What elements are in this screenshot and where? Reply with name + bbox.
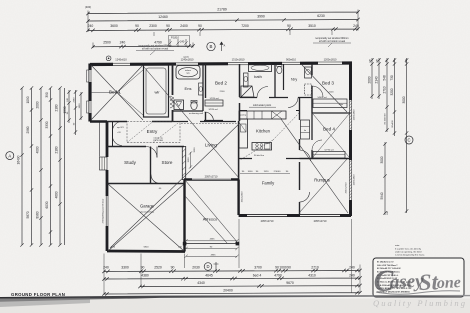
svg-text:2030: 2030 [192,266,200,270]
svg-text:3000: 3000 [380,156,384,163]
interior wall: bed2 bottom [204,120,223,122]
bed1 raked ceiling diagonals [91,65,143,120]
interior wall: bath & ldry bottom (hall) [240,97,313,99]
svg-text:5870: 5870 [26,211,30,218]
bottom dimension chain row 3 [138,284,361,288]
study window on left wall [100,157,108,170]
svg-text:1000: 1000 [248,171,254,173]
bed2 robe [205,100,223,106]
svg-text:2057x2710: 2057x2710 [346,182,348,194]
svg-text:P.1810: P.1810 [171,36,179,40]
svg-text:3510: 3510 [308,24,316,28]
svg-text:2057x2710: 2057x2710 [205,174,218,178]
porch edge [99,122,101,157]
laundry washer space [305,84,312,95]
svg-text:Ens: Ens [185,86,192,91]
interior wall: ens/bed2 divider [205,64,207,121]
svg-text:1/976 wd: 1/976 wd [210,98,220,100]
small dim cluster 90/P1810/240 [168,39,187,47]
svg-text:90x900: 90x900 [392,120,394,128]
title block box [373,258,464,297]
interior wall: bath right [274,64,276,97]
kitchen dashed bulkhead [240,112,300,160]
grid bubble C [405,136,413,144]
bottom dimension chain row 4 [102,291,361,296]
svg-text:16490: 16490 [17,155,21,164]
svg-text:Garage: Garage [140,204,155,209]
svg-text:90: 90 [198,24,202,28]
witness lines below top chain [154,31,332,36]
svg-text:240: 240 [349,273,355,277]
svg-text:2710: 2710 [383,86,387,93]
svg-text:4380: 4380 [141,273,149,277]
ens wc [191,101,197,109]
interior wall: kitchen top hall [240,110,300,112]
interior wall: study/store divider [150,147,152,184]
svg-text:548: 548 [383,75,387,81]
svg-text:2700x(900) panel lift door: 2700x(900) panel lift door [102,198,105,223]
svg-text:plaster/ceiling: plaster/ceiling [140,211,154,214]
exterior wall: garage right [183,180,185,252]
svg-text:3700: 3700 [254,266,262,270]
svg-text:20400: 20400 [223,288,233,292]
garage panel lift door opening [106,196,108,226]
bed3 diagonal [302,65,347,112]
study door arc [146,147,157,158]
svg-text:Bed 1: Bed 1 [109,90,121,95]
svg-text:90: 90 [166,24,170,28]
interior wall: hall right / rumpus left [299,98,301,216]
svg-text:8960: 8960 [36,211,40,218]
svg-text:1200x1810: 1200x1810 [354,174,356,186]
svg-text:(grid): (grid) [183,55,188,58]
right dimension chains upper [370,58,408,213]
svg-text:90: 90 [287,266,291,270]
grid bubble B with section arrow [207,42,215,50]
svg-text:2980: 2980 [74,97,76,103]
svg-text:240: 240 [120,41,126,45]
rumpus door arc [300,150,311,161]
left dimension chains [20,86,64,246]
bottom-left corner smudge [0,298,90,308]
alfresco top wall with slider [184,178,239,181]
living dashed ceiling line [181,123,238,125]
svg-text:2520: 2520 [154,266,162,270]
svg-text:a/f with no bottom reveal: a/f with no bottom reveal [142,48,169,51]
interior wall: ens right [202,64,204,111]
long roof diagonal store to garage [110,123,240,248]
bed3 robe [313,99,347,108]
svg-text:Family: Family [262,181,275,186]
svg-text:90 1000 90: 90 1000 90 [385,113,387,125]
svg-text:one: one [437,274,462,292]
svg-text:l'dry: l'dry [291,78,298,82]
bed1 hip mid lines [117,70,143,115]
wir shelves [146,68,166,114]
rumpus reverse diagonal [299,159,347,213]
svg-text:240: 240 [88,24,94,28]
svg-text:21789: 21789 [217,8,227,12]
top wall window openings [113,63,130,66]
svg-text:under an opening, the lintel: under an opening, the lintel [395,250,422,253]
svg-text:1800: 1800 [79,103,81,109]
interior wall: bed4 bottom / rumpus top [300,158,351,160]
svg-text:A: A [8,153,11,158]
svg-text:240: 240 [180,40,185,44]
interior wall: hall below bed2/ens [172,121,236,123]
svg-text:4365: 4365 [210,239,216,241]
svg-text:C: C [407,138,410,143]
svg-text:a/f with no bottom reveal: a/f with no bottom reveal [319,40,346,43]
svg-text:7200: 7200 [241,24,249,28]
ens shower [174,100,184,110]
svg-text:730: 730 [390,75,394,81]
svg-text:4600: 4600 [55,191,59,198]
svg-text:Rumpus: Rumpus [314,178,330,183]
alfresco sub dims lines [186,241,237,256]
svg-text:pantry: pantry [240,114,247,117]
svg-text:(400): (400) [85,5,91,9]
laundry trough [305,67,312,78]
svg-text:bed 4: bed 4 [253,273,262,277]
svg-text:2100: 2100 [220,91,226,93]
top dimension chain: overall 21789 [86,10,359,15]
right chain lower 5940 [383,142,386,215]
interior wall: wir enclosure [144,65,169,117]
garage internal door arc [151,175,160,184]
exterior wall: family/rumpus bottom [239,214,351,217]
bath tub [249,64,272,72]
svg-text:5820: 5820 [144,247,150,249]
svg-text:4790: 4790 [274,273,282,277]
svg-text:81 (Wall) Item U!: 81 (Wall) Item U! [377,260,394,263]
interior wall: bed3 bottom [312,112,351,114]
bed2 door arc [205,112,214,121]
svg-text:wp W1: wp W1 [117,127,124,129]
interior wall: store right / living edge (hatched) [182,147,185,180]
svg-text:5940: 5940 [380,192,384,199]
svg-text:1090: 1090 [26,96,30,103]
svg-text:1200x1810: 1200x1810 [324,58,337,62]
entry raked ceiling dashed box [127,122,180,143]
interior wall: wc right [283,64,285,90]
bottom dimension chain row 2 [102,276,361,280]
svg-text:3990: 3990 [257,15,265,19]
svg-text:90: 90 [287,24,291,28]
alfresco diagonals [185,180,238,243]
exterior wall: top [90,63,352,65]
svg-text:Bed 2: Bed 2 [215,81,227,86]
svg-text:1310x1810: 1310x1810 [232,58,245,62]
svg-text:5/809 wd: 5/809 wd [318,97,328,99]
interior wall: ens bottom [173,110,204,112]
svg-text:note:: note: [395,244,400,247]
svg-text:B: B [210,44,213,49]
extension lines top chains [88,10,358,49]
bath corner shower [241,86,254,97]
svg-text:1000: 1000 [279,266,287,270]
kitchen left bench + sink [239,119,248,148]
svg-text:2500: 2500 [103,41,111,45]
svg-text:GROUND FLOOR PLAN: GROUND FLOOR PLAN [11,292,65,297]
svg-text:1012x2410: 1012x2410 [242,191,244,203]
top dimension chain: 240/3600/90/2300/90/2400/90/7200/90/3510 [86,27,359,32]
kitchen bench top row [239,111,286,119]
bed4 door arc [312,140,322,150]
bath door arc [257,87,268,98]
grid bubble D [204,263,212,271]
ens spa bath [176,66,200,80]
svg-text:Entry: Entry [147,129,158,134]
living to wir long diagonal [144,67,239,178]
ens vanity [199,83,204,95]
svg-text:bath: bath [254,74,262,79]
svg-text:3000: 3000 [402,96,406,103]
svg-text:6230: 6230 [317,14,325,18]
interior wall: entry bottom / study top [107,146,184,148]
interior wall: bed1 wing bottom (hall) [107,121,172,123]
svg-text:4340: 4340 [197,281,205,285]
svg-text:9670: 9670 [286,281,294,285]
svg-text:reclaiming wall: reclaiming wall [189,112,204,115]
svg-text:2057x2710: 2057x2710 [261,219,274,223]
svg-text:4310: 4310 [308,273,316,277]
svg-text:Bed 3: Bed 3 [322,81,334,86]
interior wall: store/garage top [107,183,185,185]
grid bubble A [6,152,14,160]
svg-text:2180: 2180 [55,146,59,153]
downpipe circle symbol [106,56,111,61]
svg-text:900x610: 900x610 [286,58,297,62]
bottom rows extension lines [104,219,360,295]
svg-text:3300: 3300 [121,266,129,270]
interior wall: bed4 left [311,113,313,158]
svg-text:390: 390 [45,92,49,98]
exterior wall: right with windows [349,63,352,216]
bed3 door arc [312,86,323,97]
kitchen island with cooktop [252,143,272,151]
bottom dimension chain row 1 [102,269,361,273]
linen cupboard column [301,120,310,139]
svg-text:2100: 2100 [329,92,335,94]
svg-text:1520: 1520 [264,171,270,173]
top dimension chain: 12460 / 3990 / 6230 [86,18,359,23]
svg-text:3/976 wd: 3/976 wd [209,109,219,111]
ldry door arc [288,98,298,108]
svg-text:indoor: indoor [185,69,191,72]
exterior wall: bed1 left with windows [88,64,91,122]
svg-text:6030: 6030 [45,201,49,208]
svg-text:12460: 12460 [158,15,168,19]
svg-text:wir: wir [154,90,160,95]
interior wall: ens left [172,64,174,121]
alfresco right wall [237,180,239,216]
top dimension chain: 2500/240/4790 [91,44,194,48]
svg-text:Kitchen: Kitchen [256,129,271,134]
left short chains near house [67,90,82,135]
svg-text:D: D [206,264,209,269]
svg-text:240: 240 [349,266,355,270]
exterior wall: bed1 wing bottom / porch step [90,120,107,123]
svg-text:2400: 2400 [180,24,188,28]
svg-text:2000: 2000 [36,101,40,108]
svg-text:cold water point: cold water point [253,103,271,107]
interior wall: hall right / bed3 left [311,64,313,113]
bath vanity [244,73,249,87]
svg-text:3330: 3330 [45,121,49,128]
svg-text:2/1000: 2/1000 [274,171,281,173]
svg-text:2/8 3/.968: 2/8 3/.968 [153,140,164,142]
entry double door arcs [112,122,114,146]
svg-text:1245x610: 1245x610 [115,58,127,62]
svg-text:4000: 4000 [36,146,40,153]
svg-text:Store: Store [162,160,173,165]
svg-text:raked clg: raked clg [154,137,164,140]
svg-text:if a girder truss sits directl: if a girder truss sits directly [395,247,422,250]
svg-text:A: A [224,44,226,48]
family rumpus long roof diagonal [281,119,348,213]
svg-text:2057x2710: 2057x2710 [314,219,327,223]
svg-text:Living: Living [205,143,217,148]
rumpus door arc 2 [300,192,310,202]
svg-text:2000: 2000 [368,76,372,83]
svg-text:2980: 2980 [26,126,30,133]
svg-text:3000: 3000 [194,147,196,153]
interior wall: living/family left [238,121,240,180]
wc toilet [277,66,282,73]
svg-text:2180: 2180 [55,104,59,111]
interior wall: bed2/bath divider (spine) [239,64,241,121]
svg-text:1200x1810: 1200x1810 [354,109,356,121]
svg-text:90 dia flue: 90 dia flue [254,155,265,157]
svg-text:Alfresco: Alfresco [203,217,218,222]
svg-text:2710: 2710 [311,266,319,270]
svg-text:Study: Study [124,160,136,165]
exterior wall: left (study/garage) with openings [106,122,109,252]
svg-text:2140: 2140 [375,76,379,83]
bed4 diagonals [313,114,349,157]
bed4 robe [313,152,345,159]
svg-text:Bed 4: Bed 4 [323,127,335,132]
svg-text:3600: 3600 [110,24,118,28]
interior wall: kitchen/family top [239,158,300,160]
svg-text:1500: 1500 [188,157,190,163]
svg-text:2300: 2300 [149,24,157,28]
svg-text:5/776 wd: 5/776 wd [325,150,335,152]
svg-text:90: 90 [171,266,175,270]
alfresco posts and open edge [183,242,187,246]
exterior wall: garage bottom [107,250,185,253]
svg-text:3200: 3200 [390,88,394,95]
svg-text:is to be designed by the manu.: is to be designed by the manu. [395,253,425,256]
garage cross diagonals [108,184,184,251]
svg-text:90: 90 [135,24,139,28]
svg-text:4645: 4645 [205,273,213,277]
